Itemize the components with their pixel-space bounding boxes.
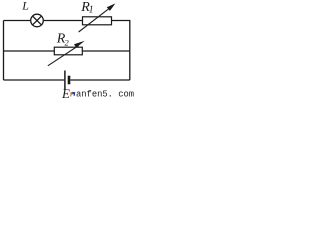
wire: right vertical <box>129 21 131 81</box>
wire: left vertical <box>3 21 5 81</box>
wire: R2 to right vertical <box>82 50 130 52</box>
R1 wiper arrow <box>79 3 116 32</box>
wire: top left horizontal to lamp <box>4 20 31 22</box>
wire: middle left horizontal to R2 <box>4 50 55 52</box>
wire: bottom left horizontal to battery <box>4 79 65 81</box>
wire: battery to bottom right <box>70 79 130 81</box>
R2 wiper arrow <box>48 41 85 66</box>
wire: lamp to R1 <box>43 20 82 22</box>
resistor R2 (box) <box>54 47 82 55</box>
svg-text:L: L <box>21 0 29 12</box>
svg-text:anfen5. com: anfen5. com <box>76 90 134 99</box>
lamp L (circle with cross) <box>31 14 44 27</box>
svg-text:E: E <box>61 86 70 99</box>
battery E,r : long plate <box>64 71 66 90</box>
svg-text:2: 2 <box>65 38 70 48</box>
wire: R1 to right vertical <box>112 20 131 22</box>
resistor R1 (box) <box>83 17 112 25</box>
battery E,r : short thick plate <box>68 76 71 85</box>
watermark icon (logo over the r position) <box>70 92 75 96</box>
svg-text:1: 1 <box>89 4 94 15</box>
